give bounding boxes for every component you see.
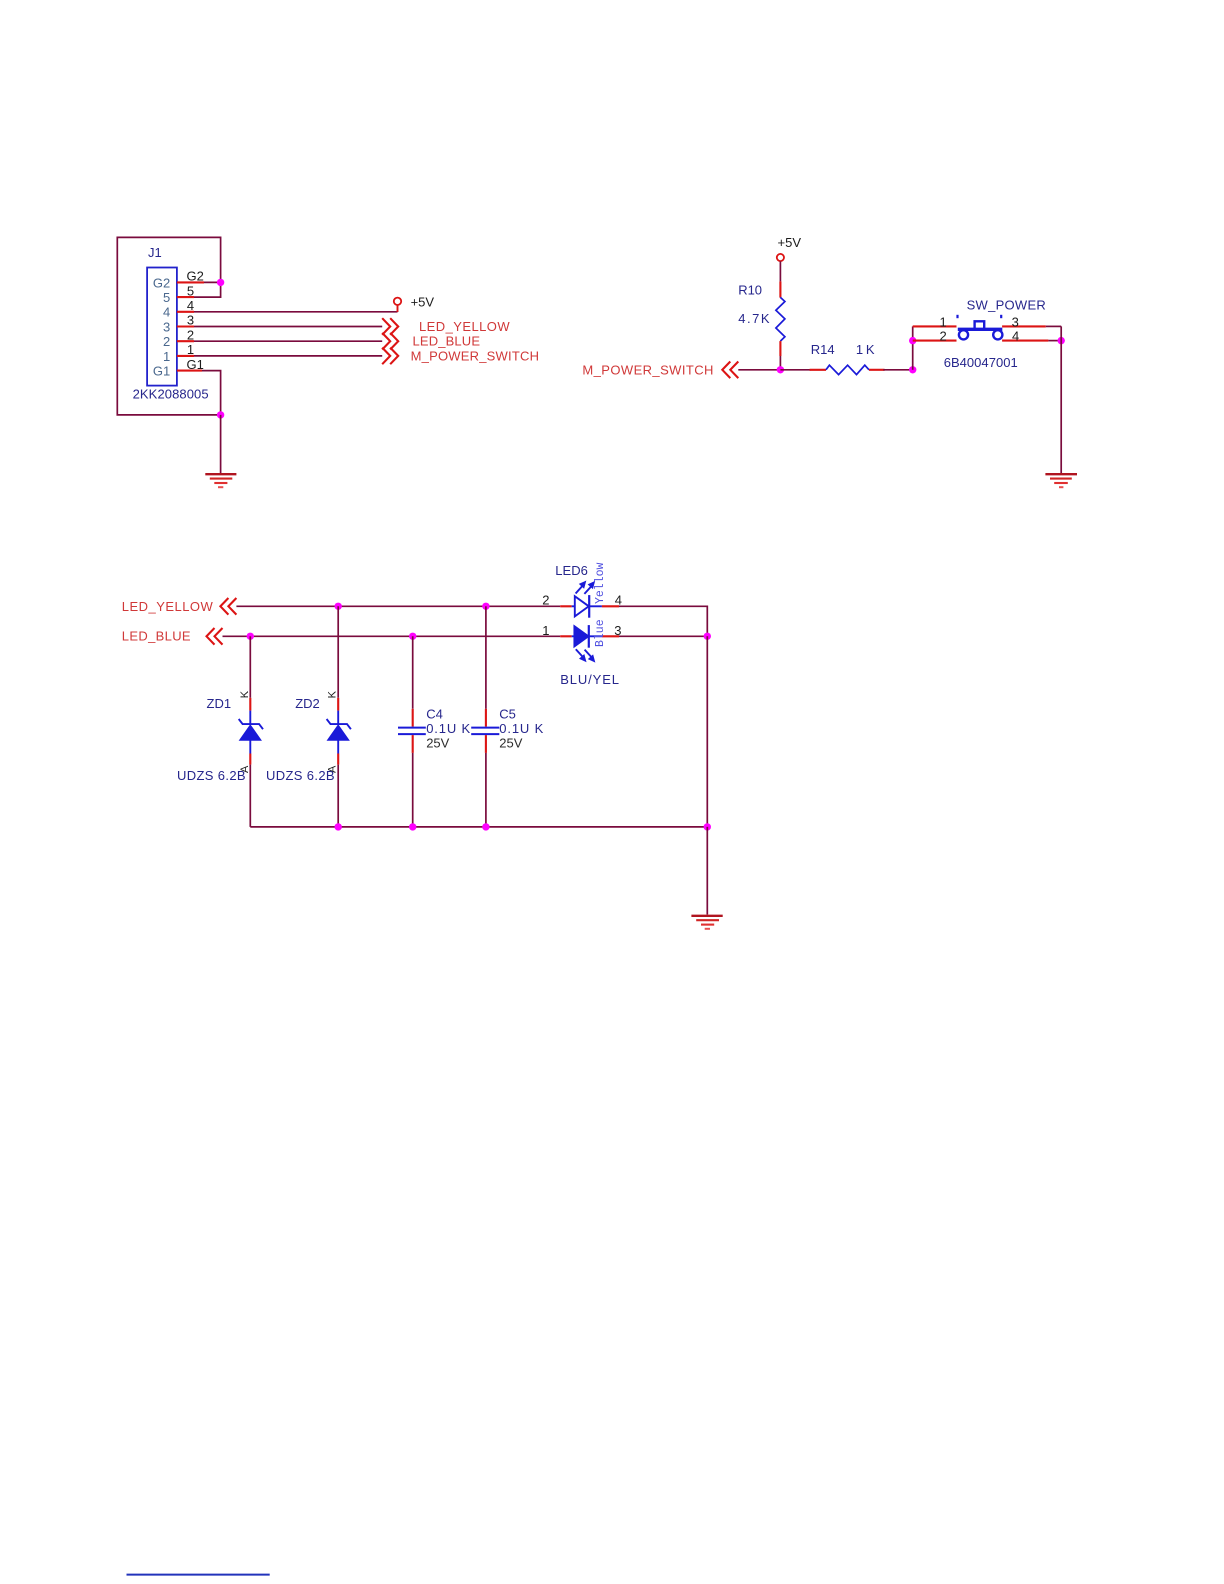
+5V power symbol (switch side) [777, 254, 784, 261]
wire switch left vertical [912, 326, 914, 369]
zener diode ZD2 [327, 606, 351, 827]
LED6 yellow element pin 2 wire [560, 605, 575, 607]
net label +5V (switch side) [778, 235, 802, 250]
wire R14 to switch left junction [869, 369, 913, 371]
junction dot bus C5 [482, 823, 489, 830]
LED6 refdes label [555, 563, 588, 578]
svg-text:ZD1: ZD1 [207, 696, 232, 711]
junction dot LED pin3 right [704, 633, 711, 640]
svg-text:25V: 25V [426, 736, 449, 751]
wire LED_YELLOW row [236, 605, 560, 607]
LED6 pin number 2 [542, 592, 549, 607]
net label LED_BLUE (middle) [122, 629, 191, 644]
connector J1 body [147, 268, 177, 386]
switch SW_POWER refdes label [967, 297, 1046, 312]
svg-text:2KK2088005: 2KK2088005 [133, 387, 209, 402]
switch SW_POWER value label 6B40047001 [944, 355, 1018, 370]
svg-text:25V: 25V [499, 736, 522, 751]
svg-text:K: K [327, 690, 339, 698]
resistor R10 refdes label [738, 283, 762, 298]
svg-text:ZD2: ZD2 [295, 696, 320, 711]
svg-text:G1: G1 [153, 364, 170, 379]
capacitor C5 value label 0.1U K [499, 721, 543, 736]
svg-text:2: 2 [542, 592, 549, 607]
footer rule line [127, 1574, 270, 1576]
junction dot J1 ground [217, 411, 224, 418]
capacitor C5 refdes label [499, 706, 516, 721]
connector J1 inside pin names [153, 275, 170, 378]
net label +5V (J1 side) [411, 294, 435, 309]
resistor R14 refdes label [811, 342, 835, 357]
svg-text:C4: C4 [426, 706, 443, 721]
wire switch pin4 row [1002, 340, 1061, 342]
connector J1 pin stubs [177, 282, 204, 370]
svg-text:1: 1 [163, 349, 170, 364]
svg-text:C5: C5 [499, 706, 516, 721]
svg-text:G2: G2 [153, 275, 170, 290]
LED6 pin number 4 [615, 592, 622, 607]
junction dot bus right [704, 823, 711, 830]
capacitor C4 [398, 636, 426, 827]
wire R10 to M_POWER junction [779, 341, 781, 370]
wire bus to ground [706, 827, 708, 915]
ground symbol middle [691, 916, 722, 929]
junction dot C4 top [409, 633, 416, 640]
wire pin2 LED_BLUE [194, 340, 382, 342]
zener diode ZD1 [239, 636, 263, 827]
svg-text:4: 4 [615, 592, 622, 607]
connector J1 pin number labels [187, 269, 204, 372]
switch SW_POWER symbol [958, 315, 1003, 340]
wire J1 junction to ground [220, 415, 222, 473]
wire LED_BLUE row [223, 635, 561, 637]
wire pin1 M_POWER_SWITCH [194, 355, 382, 357]
LED6 blue element pin 1 wire [560, 635, 574, 637]
svg-text:2: 2 [187, 327, 194, 342]
svg-text:0.1U K: 0.1U K [499, 721, 543, 736]
junction dot bus ZD2 [335, 823, 342, 830]
zener ZD2 pin name K [327, 690, 339, 698]
junction dot R10/M_POWER [777, 366, 784, 373]
net label LED_YELLOW (J1 side) [419, 319, 510, 334]
svg-text:J1: J1 [148, 245, 162, 260]
off-page connector chevrons LED_YELLOW (middle) [220, 598, 236, 615]
svg-text:K: K [239, 690, 251, 698]
LED6 pin number 1 [542, 623, 549, 638]
connector J1 value label 2KK2088005 [133, 387, 209, 402]
switch pin number 1 [940, 315, 947, 330]
svg-text:M_POWER_SWITCH: M_POWER_SWITCH [411, 348, 539, 363]
+5V power symbol (J1 side) [394, 298, 401, 312]
net label M_POWER_SWITCH (J1 side) [411, 348, 539, 363]
wire pin4 to +5V [194, 311, 398, 313]
LED6 yellow emission arrows [576, 582, 594, 594]
LED6 rotated label Yellow [594, 562, 607, 604]
switch pin number 3 [1012, 315, 1019, 330]
ground symbol under switch [1045, 474, 1077, 487]
svg-text:4.7K: 4.7K [738, 311, 770, 326]
LED6 yellow element pin 4 wire [589, 606, 707, 636]
svg-text:LED_BLUE: LED_BLUE [122, 629, 191, 644]
svg-text:1K: 1K [856, 342, 875, 357]
junction dot ZD1 top [247, 633, 254, 640]
resistor R14 [826, 365, 869, 374]
wire pin3 LED_YELLOW [194, 326, 382, 328]
svg-text:UDZS 6.2B: UDZS 6.2B [266, 768, 335, 783]
svg-text:M_POWER_SWITCH: M_POWER_SWITCH [582, 362, 713, 377]
connector J1 refdes label J1 [148, 245, 162, 260]
zener ZD1 pin name A [239, 765, 251, 773]
wire G2/G1 loop around connector [117, 237, 220, 415]
svg-text:5: 5 [163, 290, 170, 305]
resistor R10 value label 4.7K [738, 311, 770, 326]
switch pin number 4 [1012, 328, 1019, 343]
wire right vertical to bottom bus [706, 636, 708, 827]
svg-text:LED6: LED6 [555, 563, 588, 578]
zener ZD2 pin name A [327, 765, 339, 773]
LED6 rotated label Blue [594, 619, 607, 647]
svg-text:LED_YELLOW: LED_YELLOW [419, 319, 510, 334]
svg-text:5: 5 [187, 283, 194, 298]
wire switch right vertical to ground [1060, 326, 1062, 473]
svg-text:2: 2 [163, 334, 170, 349]
svg-text:BLU/YEL: BLU/YEL [560, 672, 619, 687]
wire switch pin3 row [1002, 325, 1061, 327]
resistor R10 [776, 297, 785, 341]
junction dot ZD2 top [335, 603, 342, 610]
zener ZD2 value label UDZS 6.2B [266, 768, 335, 783]
svg-text:LED_YELLOW: LED_YELLOW [122, 599, 214, 614]
wire G1 down to bottom junction [202, 371, 221, 415]
junction dot C5 top [482, 603, 489, 610]
svg-text:3: 3 [163, 319, 170, 334]
capacitor C4 voltage label 25V [426, 736, 449, 751]
svg-text:Blue: Blue [594, 619, 607, 647]
wire chevron to R10 junction [738, 369, 780, 371]
svg-text:+5V: +5V [411, 294, 435, 309]
net label M_POWER_SWITCH (left) [582, 362, 713, 377]
zener ZD1 refdes label [207, 696, 232, 711]
svg-text:4: 4 [163, 305, 170, 320]
svg-text:3: 3 [614, 623, 621, 638]
svg-text:1: 1 [542, 623, 549, 638]
off-page connector chevrons M_POWER_SWITCH (left) [722, 362, 738, 379]
svg-text:LED_BLUE: LED_BLUE [413, 334, 481, 349]
capacitor C4 value label 0.1U K [426, 721, 470, 736]
off-page connector chevrons LED_YELLOW [382, 318, 398, 335]
net label LED_YELLOW (middle) [122, 599, 214, 614]
svg-text:R14: R14 [811, 342, 835, 357]
junction dot G2/5 [217, 279, 224, 286]
wire switch pin1 row [913, 325, 957, 327]
switch pin number 2 [940, 328, 947, 343]
wire bottom ground bus [250, 826, 707, 828]
off-page connector chevrons LED_BLUE (middle) [207, 628, 223, 645]
zener ZD1 value label UDZS 6.2B [177, 768, 246, 783]
wire pin5 up to G2 junction [194, 282, 221, 297]
zener ZD1 pin name K [239, 690, 251, 698]
svg-text:6B40047001: 6B40047001 [944, 355, 1018, 370]
svg-text:Yellow: Yellow [594, 562, 607, 604]
ground symbol under J1 [205, 474, 236, 487]
LED6 yellow diode symbol [575, 595, 589, 618]
LED6 blue element pin 3 wire [589, 635, 708, 637]
svg-text:SW_POWER: SW_POWER [967, 297, 1046, 312]
junction dot bus C4 [409, 823, 416, 830]
svg-text:UDZS 6.2B: UDZS 6.2B [177, 768, 246, 783]
svg-text:0.1U K: 0.1U K [426, 721, 470, 736]
LED6 blue diode symbol [574, 625, 588, 648]
wire G2 to junction [204, 281, 221, 283]
zener ZD2 refdes label [295, 696, 320, 711]
svg-text:R10: R10 [738, 283, 762, 298]
svg-text:2: 2 [940, 328, 947, 343]
off-page connector chevrons LED_BLUE [382, 333, 398, 350]
off-page connector chevrons M_POWER_SWITCH [382, 348, 398, 365]
LED6 blue emission arrows [576, 649, 594, 661]
wire junction to R14 [780, 369, 826, 371]
junction dot switch row2 left [909, 337, 916, 344]
LED6 pin number 3 [614, 623, 621, 638]
LED6 value label BLU/YEL [560, 672, 619, 687]
capacitor C5 [471, 606, 499, 827]
junction dot switch left lower [909, 366, 916, 373]
svg-text:+5V: +5V [778, 235, 802, 250]
capacitor C5 voltage label 25V [499, 736, 522, 751]
net label LED_BLUE (J1 side) [413, 334, 481, 349]
resistor R14 value label 1K [856, 342, 875, 357]
junction dot switch row2 right [1058, 337, 1065, 344]
capacitor C4 refdes label [426, 706, 443, 721]
svg-text:4: 4 [1012, 328, 1019, 343]
wire switch pin2 row [913, 340, 957, 342]
wire +5V to R10 [779, 261, 781, 297]
